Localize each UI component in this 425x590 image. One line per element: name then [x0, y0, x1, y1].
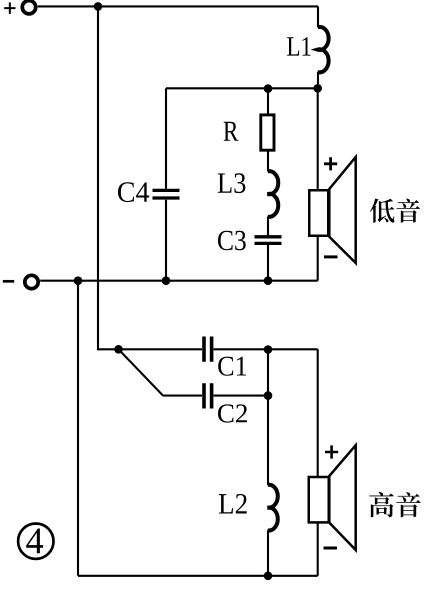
- label R: [224, 122, 239, 141]
- figure number circled 4: [18, 524, 53, 559]
- wire woofer minus lead: [317, 237, 319, 281]
- node R-branch top: [264, 84, 273, 93]
- wire diagonal to C2: [119, 349, 164, 395]
- label L1: [287, 37, 310, 55]
- wire minus rail: [40, 280, 318, 282]
- label tweeter minus sign: [324, 547, 338, 550]
- wire C4 branch upper: [165, 88, 167, 189]
- label C2: [218, 404, 247, 422]
- wire R to L3: [267, 152, 269, 172]
- speaker tweeter: [309, 445, 356, 550]
- label fig4: [26, 529, 43, 554]
- wire tweeter minus lead: [317, 524, 319, 576]
- label L2: [219, 494, 247, 514]
- wire L3 to C3: [267, 217, 269, 236]
- node C3 bottom: [264, 276, 273, 285]
- label L3: [218, 173, 246, 193]
- wire L1 leads: [317, 6, 319, 88]
- node junction top: [94, 2, 103, 11]
- wire C3 to minus rail: [267, 245, 269, 281]
- input terminal plus: [4, 1, 35, 14]
- label woofer plus sign: [324, 157, 337, 170]
- label woofer text DiYin: [370, 198, 420, 222]
- capacitor C3: [255, 237, 282, 244]
- node woofer-branch top: [313, 84, 322, 93]
- label tweeter text GaoYin: [369, 492, 421, 517]
- capacitor C1: [204, 337, 212, 362]
- wire left drop: [77, 281, 79, 576]
- wire C2 row left: [163, 395, 202, 397]
- node C1 mid-column: [264, 345, 273, 354]
- wire C2 row right: [214, 395, 268, 397]
- label tweeter plus sign: [325, 445, 338, 458]
- node C2 mid-column: [264, 391, 273, 400]
- wire top rail: [38, 5, 318, 7]
- wire mid rail: [166, 87, 318, 89]
- speaker woofer: [309, 157, 355, 263]
- wire plus-branch drop: [98, 6, 119, 349]
- resistor R: [261, 115, 274, 150]
- capacitor C4: [153, 190, 180, 198]
- label C4: [118, 182, 149, 202]
- node C4 bottom: [162, 276, 171, 285]
- inductor L3: [268, 171, 279, 217]
- wire C1 row left: [119, 348, 203, 350]
- node tweeter branch split: [114, 345, 123, 354]
- input terminal minus: [3, 275, 38, 288]
- wire bottom rail: [78, 575, 318, 577]
- wire C1 row right: [214, 348, 318, 350]
- label woofer minus sign: [324, 255, 338, 258]
- label C3: [218, 231, 246, 250]
- label C1: [218, 357, 246, 376]
- wire C4 branch lower: [165, 200, 167, 281]
- wire R top lead: [267, 88, 269, 113]
- wire mid column: [267, 349, 269, 576]
- node minus-left: [74, 276, 83, 285]
- inductor L1: [318, 27, 329, 72]
- wire woofer plus lead: [317, 88, 319, 189]
- wire tweeter plus lead: [317, 349, 319, 476]
- capacitor C2: [204, 383, 212, 408]
- inductor L2: [268, 485, 278, 531]
- node L2 bottom: [264, 572, 273, 581]
